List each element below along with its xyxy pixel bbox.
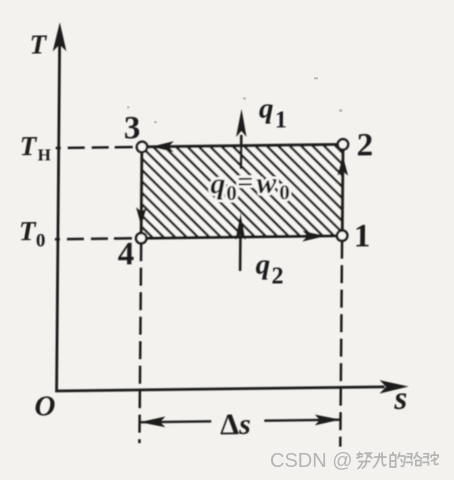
svg-text:H: H	[38, 145, 51, 164]
svg-text:0: 0	[36, 230, 46, 251]
svg-text:T: T	[29, 29, 47, 59]
svg-text:q: q	[256, 249, 271, 281]
svg-text:4: 4	[118, 236, 135, 272]
svg-text:2: 2	[357, 127, 374, 163]
svg-text:T: T	[19, 216, 37, 246]
svg-text:w: w	[256, 166, 277, 199]
svg-text:Δs: Δs	[220, 408, 251, 441]
svg-text:2: 2	[271, 263, 283, 289]
svg-text:q: q	[210, 167, 225, 200]
svg-text:1: 1	[354, 218, 371, 254]
svg-text:0: 0	[226, 181, 237, 205]
svg-text:=: =	[237, 167, 253, 198]
svg-text:T: T	[20, 131, 38, 161]
svg-text:CSDN @: CSDN @	[270, 450, 353, 472]
svg-text:O: O	[34, 390, 55, 422]
svg-text:s: s	[393, 381, 407, 417]
svg-text:0: 0	[279, 180, 290, 204]
svg-text:1: 1	[275, 107, 287, 133]
svg-text:3: 3	[124, 110, 141, 146]
svg-text:q: q	[259, 93, 274, 125]
